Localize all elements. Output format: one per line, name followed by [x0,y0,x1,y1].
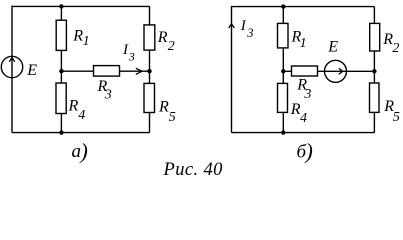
wire middle branch (circuit a) [61,70,149,72]
svg-text:3: 3 [128,49,135,63]
voltage source E (circuit b) [325,60,347,82]
wire middle column R1-R4 (circuit b) [282,7,284,133]
resistor R2 (circuit b) [370,23,380,51]
wire bottom (circuit b) [232,132,375,134]
label R5 (circuit b) [383,98,400,125]
label R1 (circuit b) [291,29,307,52]
wire middle branch (circuit b) [283,70,374,72]
svg-text:4: 4 [78,108,85,123]
label R4 (circuit b) [290,101,307,126]
label b) [297,139,313,164]
junction node top (circuit a) [59,4,63,8]
svg-text:1: 1 [300,36,307,51]
resistor R3 (circuit a) [94,66,120,77]
label R2 (circuit a) [157,29,175,54]
svg-text:1: 1 [83,34,90,49]
label R5 (circuit a) [158,99,176,126]
svg-text:R: R [158,99,169,116]
label I3 (circuit a) [122,42,135,63]
resistor R4 (circuit a) [56,83,66,114]
current arrow I3 (circuit a) [136,68,142,74]
svg-text:4: 4 [300,111,307,126]
resistor R2 (circuit a) [144,25,155,50]
resistor R1 (circuit a) [56,20,66,50]
resistor R3 (circuit b) [292,66,318,76]
junction node bottom (circuit a) [59,130,63,134]
resistor R5 (circuit b) [370,83,380,112]
junction node top (circuit b) [281,4,285,8]
wire left (circuit b) [231,6,233,133]
wire right column R2-R5 (circuit a) [149,6,151,132]
wire top (circuit b) [232,6,375,8]
svg-text:R: R [157,29,168,46]
svg-text:E: E [26,62,37,79]
label R3 (circuit b) [296,77,311,102]
resistor R4 (circuit b) [278,83,288,112]
svg-text:2: 2 [168,39,175,54]
wire bottom (circuit a) [12,132,150,134]
svg-text:): ) [304,139,313,164]
label I3 (circuit b) [240,18,254,40]
svg-text:3: 3 [104,88,112,103]
wire middle column R1-R4 (circuit a) [60,6,62,132]
voltage source E (circuit a) [1,56,22,77]
junction node bottom (circuit b) [281,130,285,134]
svg-text:): ) [79,139,88,164]
label R2 (circuit b) [382,31,399,56]
junction node middle-left (circuit b) [281,69,285,73]
svg-text:R: R [68,98,79,115]
label R1 (circuit a) [72,27,89,48]
wire top (circuit a) [12,5,150,7]
svg-text:3: 3 [246,26,253,40]
junction node middle-right (circuit b) [372,69,376,73]
label a) [72,139,88,164]
label R3 (circuit a) [97,78,112,103]
resistor R5 (circuit a) [144,83,155,112]
label R4 (circuit a) [68,98,86,124]
junction node middle-left (circuit a) [59,69,63,73]
svg-text:I: I [240,18,247,34]
svg-text:5: 5 [169,110,176,125]
svg-text:Рис. 40: Рис. 40 [163,160,224,179]
wire right column R2-R5 (circuit b) [373,7,375,133]
svg-text:5: 5 [393,110,400,125]
svg-text:E: E [327,39,338,56]
svg-text:3: 3 [303,87,311,102]
resistor R1 (circuit b) [278,23,289,48]
junction node middle-right (circuit a) [147,69,151,73]
wire left (circuit a) [11,6,13,133]
svg-text:2: 2 [392,41,399,56]
current arrow I3 (circuit b) [229,24,235,28]
